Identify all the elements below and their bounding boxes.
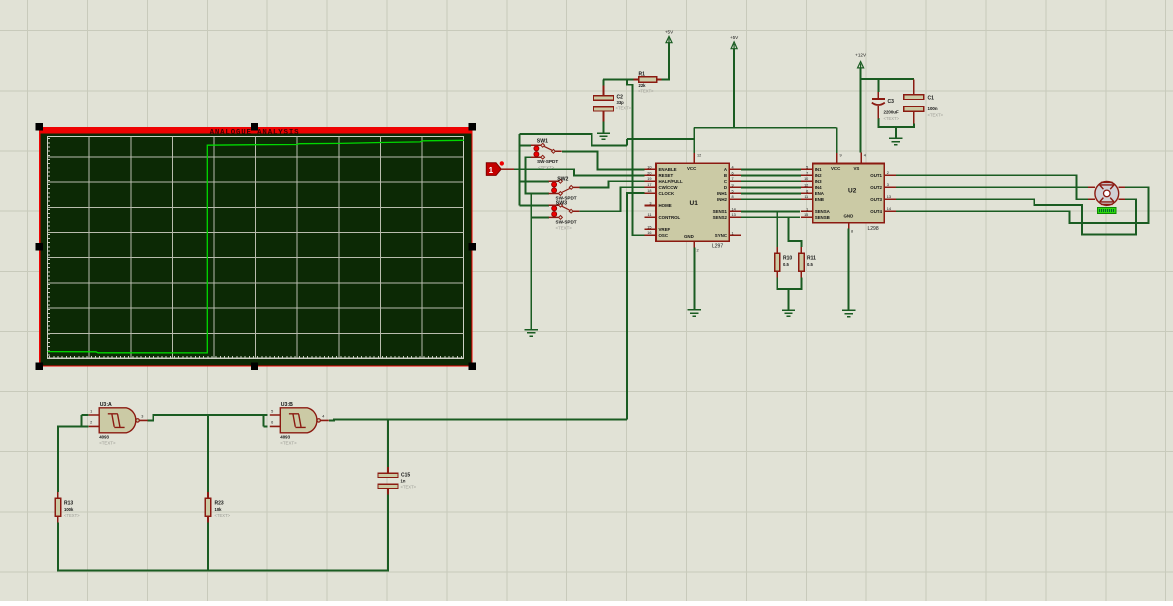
- svg-text:HOME: HOME: [659, 203, 672, 208]
- svg-text:4: 4: [864, 154, 866, 158]
- wire: SW2 pole to U1 HALF/FULL: [580, 181, 645, 187]
- wire: rail C to SW3 lower and ground: [531, 194, 549, 330]
- svg-text:2: 2: [90, 421, 92, 425]
- wire: R10/R11 bottoms to ground: [777, 277, 801, 310]
- svg-text:4093: 4093: [99, 434, 109, 439]
- svg-text:33p: 33p: [617, 100, 625, 105]
- svg-text:10k: 10k: [215, 507, 223, 512]
- wire: node 1 flag to U1 RESET: [514, 169, 645, 175]
- resistor R11: [799, 247, 817, 277]
- svg-text:C1: C1: [928, 96, 935, 102]
- svg-text:SW2: SW2: [557, 176, 568, 182]
- svg-text:<TEXT>: <TEXT>: [280, 440, 297, 445]
- svg-text:SW3: SW3: [556, 200, 567, 206]
- wire: SENS1 net with R10 drop: [741, 211, 800, 247]
- svg-text:U3:A: U3:A: [100, 402, 112, 408]
- wire: U1 GND down: [693, 247, 695, 310]
- svg-text:5: 5: [271, 409, 273, 413]
- svg-text:GND: GND: [684, 234, 694, 239]
- wire: R1/C2 node to U1 OSC: [627, 80, 645, 236]
- svg-text:OUT4: OUT4: [870, 209, 882, 214]
- svg-text:4093: 4093: [280, 434, 290, 439]
- svg-text:8: 8: [851, 230, 853, 234]
- svg-text:IN2: IN2: [815, 173, 822, 178]
- svg-text:CW/CCW: CW/CCW: [659, 185, 679, 190]
- svg-text:OSC: OSC: [659, 233, 669, 238]
- wire: U2 OUT1 to motor lower-left: [896, 175, 1088, 199]
- ground: C2: [597, 133, 610, 139]
- svg-text:<TEXT>: <TEXT>: [401, 485, 417, 490]
- svg-text:12: 12: [697, 154, 701, 158]
- svg-text:R1: R1: [639, 72, 646, 78]
- svg-text:<TEXT>: <TEXT>: [928, 113, 944, 118]
- ground: switch common: [525, 330, 538, 336]
- svg-text:C3: C3: [888, 99, 895, 105]
- wire: +12V to U2 VS and C3/C1: [861, 68, 914, 152]
- svg-text:OUT3: OUT3: [870, 197, 882, 202]
- svg-text:1: 1: [489, 166, 494, 175]
- svg-text:OUT1: OUT1: [870, 173, 882, 178]
- svg-text:SYNC: SYNC: [715, 233, 728, 238]
- svg-text:INH1: INH1: [717, 191, 728, 196]
- wire: rail A vertical SW1/SW2/SW3 upper throws: [519, 134, 548, 205]
- wire: SENS2 net with R11 drop: [741, 217, 802, 247]
- wire: R1/C2 node: [603, 43, 669, 80]
- svg-text:GND: GND: [844, 213, 854, 218]
- svg-text:INH2: INH2: [717, 197, 728, 202]
- svg-text:R10: R10: [783, 256, 792, 262]
- svg-text:<TEXT>: <TEXT>: [99, 440, 116, 445]
- svg-text:SENSB: SENSB: [815, 215, 830, 220]
- svg-text:+12V: +12V: [855, 53, 867, 58]
- wire: U1 B to U2 IN2: [741, 174, 801, 176]
- svg-text:U2: U2: [848, 188, 857, 195]
- resistor R23: [205, 492, 230, 522]
- capacitor C2: [594, 80, 632, 134]
- resistor R13: [55, 492, 80, 522]
- svg-text:<TEXT>: <TEXT>: [215, 513, 231, 518]
- wire: oscillator bottom rail: [58, 494, 388, 570]
- svg-text:CLOCK: CLOCK: [659, 191, 675, 196]
- wire: U2 OUT3 to motor lower-right: [896, 199, 1136, 234]
- wire: U1 INH2 to U2 ENB: [741, 198, 801, 200]
- svg-text:SENS2: SENS2: [713, 215, 728, 220]
- wire: U2 OUT2 to motor upper-left: [896, 186, 1088, 188]
- svg-text:22k: 22k: [639, 83, 647, 88]
- svg-text:+5V: +5V: [730, 35, 739, 40]
- wire: +5V to U1/U2 VCC rail: [627, 49, 837, 153]
- capacitor C3 electrolytic: [872, 92, 900, 121]
- svg-text:IN4: IN4: [815, 185, 822, 190]
- svg-text:4: 4: [322, 415, 324, 419]
- svg-text:100n: 100n: [928, 106, 938, 111]
- wire: C3/C1 bottoms to ground: [878, 118, 914, 138]
- svg-text:100k: 100k: [64, 507, 74, 512]
- svg-text:1: 1: [90, 409, 92, 413]
- wire: SW1 pole to U1 ENABLE: [562, 151, 645, 169]
- capacitor C15: [378, 467, 417, 494]
- capacitor C1: [904, 80, 944, 124]
- svg-text:<TEXT>: <TEXT>: [64, 513, 80, 518]
- svg-text:9: 9: [840, 154, 842, 158]
- svg-text:R13: R13: [64, 501, 73, 507]
- svg-text:ENA: ENA: [815, 191, 825, 196]
- svg-text:SENSA: SENSA: [815, 209, 831, 214]
- svg-text:2200uF: 2200uF: [884, 110, 899, 115]
- svg-text:R11: R11: [807, 256, 816, 262]
- svg-text:2: 2: [697, 249, 699, 253]
- svg-text:ENB: ENB: [815, 197, 824, 202]
- resistor R1: [634, 72, 662, 94]
- ground: sense resistors: [782, 310, 795, 316]
- wire: U2 GND down: [848, 229, 850, 311]
- wire: 4093 oscillator output to U1 CLOCK: [627, 193, 645, 419]
- svg-text:R23: R23: [215, 501, 224, 507]
- op-amp U1 L297 stepper controller: [645, 153, 741, 253]
- svg-text:SENS1: SENS1: [713, 209, 728, 214]
- op-amp U2 L298 driver: [801, 152, 896, 233]
- power +5V logic: [730, 35, 739, 49]
- transistor U3:B schmitt NAND: [270, 402, 329, 446]
- svg-text:+5V: +5V: [665, 30, 674, 35]
- switch SW1 SW-SPDT: [531, 138, 562, 159]
- svg-text:OUT2: OUT2: [870, 185, 882, 190]
- svg-text:<TEXT>: <TEXT>: [884, 116, 900, 121]
- svg-text:L298: L298: [868, 226, 879, 232]
- svg-text:0.5: 0.5: [783, 262, 789, 267]
- node 1 flag: [486, 161, 514, 175]
- svg-text:1n: 1n: [401, 479, 406, 484]
- wire: SW3 pole to U1 CW/CCW: [579, 187, 644, 211]
- wire: +5V rail A to switches top link: [519, 134, 627, 145]
- resistor R10: [775, 247, 793, 277]
- svg-text:CONTROL: CONTROL: [659, 215, 681, 220]
- wire: U3:B output to clock line and C15: [329, 419, 627, 467]
- wire: U2 OUT4 to motor upper-right: [896, 187, 1149, 223]
- svg-text:3: 3: [141, 415, 143, 419]
- svg-text:VCC: VCC: [687, 166, 697, 171]
- wire: U1 C to U2 IN3: [741, 180, 801, 182]
- svg-text:<TEXT>: <TEXT>: [556, 226, 573, 231]
- power +12V: [855, 53, 867, 68]
- motor M1 bipolar stepper: [1088, 182, 1125, 214]
- power +5V R1: [665, 30, 674, 43]
- svg-text:VCC: VCC: [831, 166, 841, 171]
- transistor U3:A schmitt NAND: [89, 402, 148, 446]
- svg-text:0.5: 0.5: [807, 262, 813, 267]
- svg-text:RESET: RESET: [659, 173, 674, 178]
- svg-text:SW-SPDT: SW-SPDT: [556, 220, 577, 225]
- wire: U1 A to U2 IN1: [741, 168, 801, 170]
- switch SW3 SW-SPDT: [549, 200, 580, 219]
- ground: decoupling: [889, 138, 902, 144]
- svg-text:<TEXT>: <TEXT>: [616, 106, 632, 111]
- svg-text:SW-SPDT: SW-SPDT: [537, 159, 558, 164]
- wire: U1 D to U2 IN4: [741, 186, 801, 188]
- svg-text:IN1: IN1: [815, 167, 822, 172]
- svg-text:<TEXT>: <TEXT>: [538, 165, 555, 170]
- svg-text:VREF: VREF: [659, 227, 671, 232]
- switch SW2 SW-SPDT: [549, 176, 580, 195]
- svg-text:U1: U1: [690, 200, 699, 207]
- svg-text:ENABLE: ENABLE: [659, 167, 677, 172]
- wire: U1 INH1 to U2 ENA: [741, 192, 801, 194]
- wire: R13 feedback to U3:A inputs: [58, 415, 89, 492]
- svg-text:IN3: IN3: [815, 179, 822, 184]
- svg-text:U3:B: U3:B: [281, 402, 293, 408]
- wire: U3:A output to R23 and U3:B inputs: [148, 415, 268, 492]
- analogue analysis window: [36, 123, 477, 370]
- ground: U2: [842, 310, 855, 316]
- svg-text:L297: L297: [712, 244, 723, 250]
- svg-text:HALF/FULL: HALF/FULL: [659, 179, 683, 184]
- svg-text:VS: VS: [854, 166, 860, 171]
- ground: U1: [688, 310, 701, 316]
- svg-text:6: 6: [271, 421, 273, 425]
- svg-text:D: D: [724, 185, 727, 190]
- svg-text:B: B: [724, 173, 727, 178]
- wire: rail B SW1 lower to SW2 lower: [525, 157, 548, 193]
- svg-text:<TEXT>: <TEXT>: [638, 88, 654, 93]
- svg-text:SW1: SW1: [537, 138, 548, 144]
